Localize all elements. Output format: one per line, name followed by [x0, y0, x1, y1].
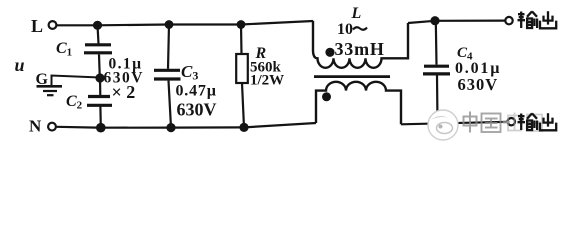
label output bottom (shu chu): [518, 113, 557, 130]
wire: bottom rail node F to node G2: [171, 126, 244, 128]
terminal N: [48, 123, 56, 131]
node D: C1/C2/ground junction: [95, 73, 104, 82]
phase dot upper winding: [325, 48, 334, 57]
svg-text:L: L: [351, 5, 362, 22]
inductor L1 upper winding: [313, 21, 408, 68]
watermark text behind output label: [508, 113, 542, 132]
terminal L: [49, 21, 57, 29]
wire: choke lower winding to output terminal: [401, 122, 508, 125]
capacitor C1: [84, 25, 112, 78]
capacitor C4: [423, 21, 450, 124]
node A: L rail / C1 junction: [93, 21, 102, 30]
wire: top rail node C to choke upper winding: [241, 21, 313, 25]
terminal output top: [505, 17, 512, 24]
svg-text:33mH: 33mH: [335, 39, 385, 59]
phase dot lower winding: [322, 92, 331, 101]
node C: R top junction: [237, 20, 246, 29]
svg-text:0.47µ: 0.47µ: [176, 83, 217, 100]
choke core: [314, 75, 390, 78]
wire: N terminal to node E: [57, 126, 98, 129]
inductor L1 lower winding: [316, 82, 401, 125]
svg-text:10: 10: [337, 21, 353, 38]
node E: N rail / C2 junction: [96, 123, 106, 133]
watermark dash: [503, 121, 511, 123]
wire: choke upper winding to output terminal: [408, 21, 506, 23]
svg-text:N: N: [29, 117, 42, 136]
node G2: R bottom junction: [239, 123, 248, 132]
svg-text:1/2W: 1/2W: [250, 73, 284, 89]
wire: bottom rail node E to node F: [101, 126, 171, 128]
node B: C3 top junction: [165, 20, 174, 29]
label output top (shu chu): [518, 11, 557, 28]
wire: ground branch to node D: [52, 76, 101, 87]
terminal output bottom: [508, 118, 515, 125]
capacitor C3: [154, 25, 181, 128]
svg-text:630V: 630V: [458, 75, 499, 94]
wire: node D to C2: [99, 78, 102, 96]
watermark text zhong: [464, 112, 477, 133]
ground symbol: [37, 86, 63, 95]
watermark text guo: [482, 114, 501, 133]
svg-text:×2: ×2: [112, 82, 140, 102]
watermark logo circle: [428, 110, 458, 140]
resistor R: [236, 25, 248, 128]
wire: L terminal to node A: [57, 24, 94, 26]
value 10~: [337, 21, 367, 38]
wire: top rail node A to node B: [98, 23, 170, 26]
svg-text:u: u: [15, 55, 25, 75]
svg-text:L: L: [31, 16, 43, 36]
svg-text:630V: 630V: [177, 100, 217, 120]
wire: top rail node B to node C: [169, 23, 241, 25]
node F: C3 bottom junction: [166, 123, 175, 132]
capacitor C2: [87, 97, 112, 128]
node H: C4 top junction: [430, 16, 439, 25]
wire: bottom rail node G2 to choke lower winding: [244, 123, 316, 127]
